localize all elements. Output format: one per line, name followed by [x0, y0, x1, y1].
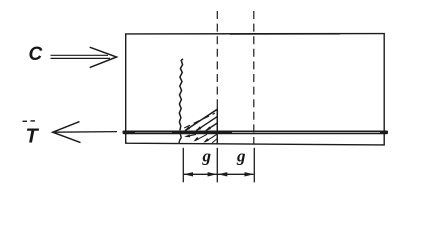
svg-text:C: C [29, 44, 43, 65]
svg-text:g: g [236, 146, 246, 165]
svg-text:T: T [26, 126, 40, 148]
svg-text:g: g [202, 146, 212, 165]
